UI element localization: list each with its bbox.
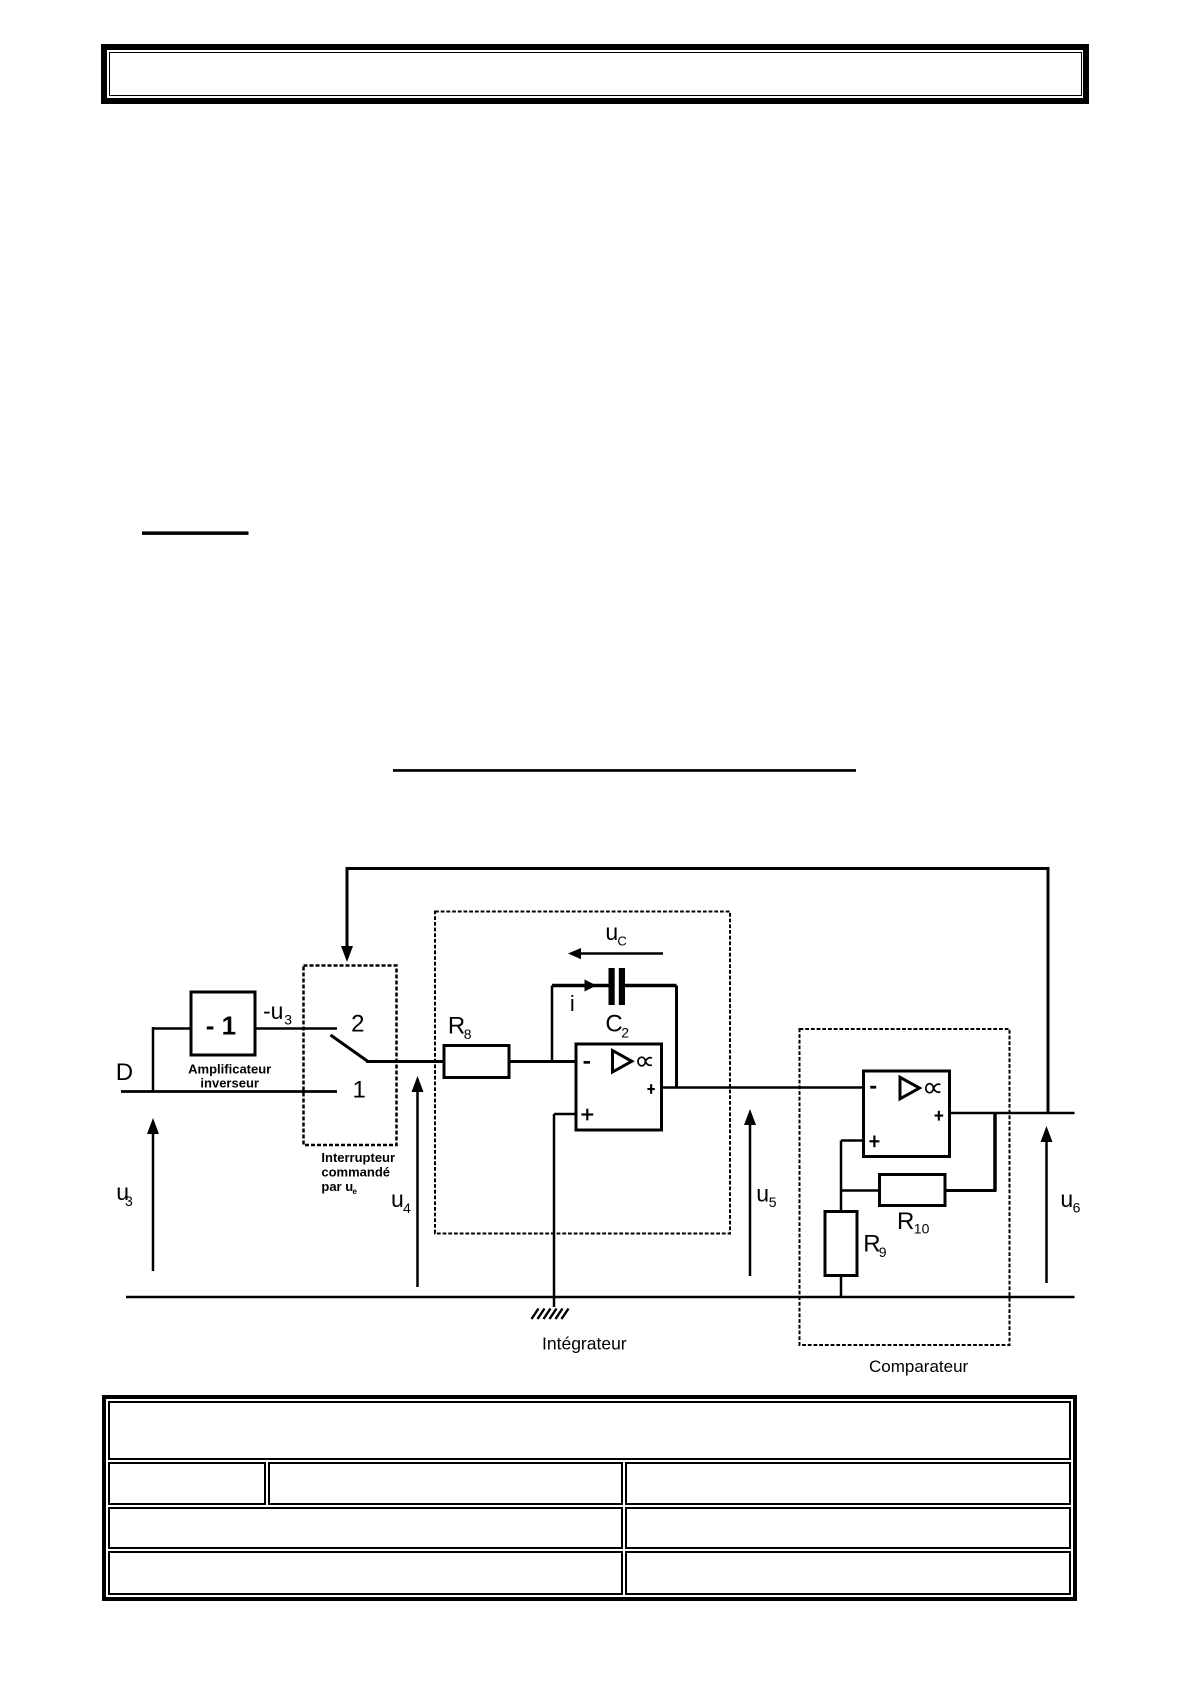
svg-text:3: 3 (284, 1011, 292, 1027)
svg-text:Comparateur: Comparateur (869, 1357, 969, 1376)
svg-text:9: 9 (879, 1244, 887, 1260)
svg-text:2: 2 (351, 1011, 364, 1038)
svg-text:8: 8 (464, 1026, 472, 1042)
svg-text:Amplificateur: Amplificateur (188, 1062, 271, 1077)
svg-text:5: 5 (769, 1194, 777, 1210)
svg-text:i: i (570, 991, 575, 1016)
svg-text:3: 3 (125, 1193, 133, 1209)
svg-text:C: C (605, 1011, 622, 1038)
svg-text:R: R (448, 1012, 465, 1039)
svg-text:Interrupteur: Interrupteur (321, 1150, 395, 1165)
svg-text:u: u (391, 1186, 404, 1212)
svg-text:1: 1 (353, 1076, 366, 1103)
svg-text:D: D (116, 1059, 133, 1086)
svg-text:u: u (756, 1181, 769, 1207)
svg-text:-u: -u (263, 998, 283, 1024)
svg-text:e: e (353, 1187, 358, 1196)
svg-text:6: 6 (1073, 1199, 1081, 1215)
svg-text:4: 4 (403, 1200, 411, 1216)
svg-text:u: u (1060, 1186, 1073, 1212)
svg-text:inverseur: inverseur (200, 1076, 259, 1091)
svg-text:10: 10 (914, 1221, 930, 1237)
svg-text:C: C (617, 934, 626, 949)
svg-text:u: u (605, 919, 618, 945)
svg-text:commandé: commandé (321, 1165, 390, 1180)
svg-text:par u: par u (321, 1179, 353, 1194)
svg-text:- 1: - 1 (206, 1010, 236, 1040)
svg-text:2: 2 (621, 1024, 629, 1040)
svg-text:Intégrateur: Intégrateur (542, 1334, 627, 1354)
svg-text:R: R (897, 1208, 914, 1235)
